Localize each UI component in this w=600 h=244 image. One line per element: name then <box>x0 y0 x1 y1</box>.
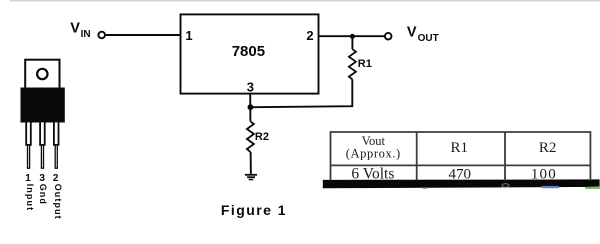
node VOUT label <box>407 25 439 44</box>
7805 package leg 2 <box>54 122 59 169</box>
svg-text:(Approx.): (Approx.) <box>346 147 401 161</box>
table header Vout (Approx.) <box>346 134 401 161</box>
7805 package leg 3 <box>40 122 45 169</box>
svg-text:OUT: OUT <box>418 33 439 44</box>
terminal VIN <box>98 32 105 39</box>
7805 package body <box>21 88 65 123</box>
svg-text:7805: 7805 <box>232 43 265 60</box>
table of resistor values <box>331 131 591 180</box>
svg-text:6 Volts: 6 Volts <box>351 165 394 182</box>
svg-text:3: 3 <box>39 173 45 184</box>
wire R1 bottom to pin 3 node <box>250 79 352 107</box>
svg-text:R1: R1 <box>450 140 468 156</box>
svg-text:1: 1 <box>25 173 31 184</box>
wire pin 2 to VOUT terminal <box>319 35 385 37</box>
junction node at R1 top <box>350 34 355 39</box>
svg-text:Input: Input <box>25 184 35 212</box>
ground <box>245 174 257 180</box>
resistor R2 <box>247 121 254 151</box>
svg-text:R2: R2 <box>255 131 269 143</box>
svg-text:2: 2 <box>53 173 59 184</box>
svg-text:100: 100 <box>531 166 557 182</box>
7805 package leg 1 <box>26 122 31 169</box>
IC U1 7805 body <box>181 14 319 93</box>
svg-text:Output: Output <box>53 184 63 220</box>
terminal VOUT <box>385 33 392 40</box>
wire R2 bottom to ground <box>250 152 252 174</box>
resistor R1 <box>349 49 356 79</box>
svg-text:R2: R2 <box>539 140 557 156</box>
svg-text:V: V <box>70 20 80 36</box>
svg-text:3: 3 <box>247 79 254 94</box>
wire VIN to pin 1 <box>106 34 180 36</box>
svg-text:470: 470 <box>449 166 472 182</box>
7805 package tab with mounting hole <box>25 60 59 89</box>
node VIN label <box>70 20 90 40</box>
junction node pin 3 / R2 <box>248 104 254 110</box>
svg-text:R1: R1 <box>358 58 372 70</box>
svg-text:V: V <box>407 25 417 41</box>
svg-text:1: 1 <box>185 28 192 43</box>
wire junction to R1 top <box>351 36 353 49</box>
svg-text:IN: IN <box>81 29 91 40</box>
svg-text:Gnd: Gnd <box>38 184 48 205</box>
svg-text:2: 2 <box>306 28 313 43</box>
wire pin 3 down <box>249 94 251 122</box>
svg-text:Figure 1: Figure 1 <box>221 202 287 218</box>
